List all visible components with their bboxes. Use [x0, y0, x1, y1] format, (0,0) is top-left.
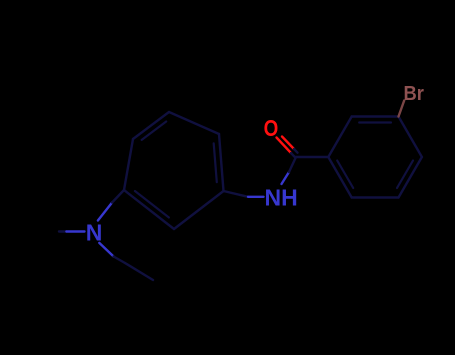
svg-text:O: O [264, 116, 279, 141]
C=O double line2 red [282, 137, 294, 150]
bond aryl-NH dark half [224, 191, 249, 197]
aromatic inner line left LT-T [142, 122, 167, 140]
aromatic inner line left B-LB [135, 191, 169, 218]
bond right-ring R-LR [399, 157, 422, 198]
svg-text:N: N [86, 220, 103, 246]
C=O double line2 dark [294, 149, 298, 153]
bond C(=O)-ring [296, 156, 328, 158]
bond right-ring UR-R [399, 117, 422, 158]
aromatic inner line right LL-Lv [337, 161, 353, 189]
bond left-ring RB-B [174, 191, 224, 229]
bond left-ring LB-LT [124, 139, 133, 190]
bond right-ring LR-LL [352, 196, 399, 198]
bond right-ring UL-UR [352, 115, 399, 117]
C=O double line1 red [277, 138, 292, 154]
bond N-CH3 blue half [66, 230, 84, 232]
bond right-ring Lv-UL [328, 117, 351, 158]
bond N-aryl dark part [112, 190, 124, 203]
bond right-ring LL-Lv [328, 157, 351, 198]
bond CH2-CH3 [125, 263, 153, 280]
bond N-aryl blue part [98, 203, 112, 221]
bond left-ring B-LB [124, 190, 174, 229]
bond N-CH3 dark half [59, 230, 66, 232]
aromatic inner line left RT-RB [214, 143, 217, 182]
svg-text:NH: NH [265, 185, 298, 211]
bond left-ring RT-RB [219, 134, 224, 191]
svg-text:Br: Br [404, 83, 425, 105]
aromatic inner line right UL-UR [359, 121, 391, 123]
bond C-Br maroon [399, 101, 405, 117]
bond aryl-NH blue half [248, 196, 264, 198]
C=O double line1 dark [291, 153, 296, 158]
bond NH-C(=O) blue half [282, 172, 290, 184]
bond N-CH2 blue part [99, 243, 113, 257]
bond NH-C(=O) dark half [289, 157, 296, 172]
bond left-ring LT-T [133, 112, 169, 139]
bond N-CH2 dark part [114, 257, 125, 264]
aromatic inner line right R-LR [397, 161, 413, 189]
bond left-ring T-RT [169, 112, 219, 134]
